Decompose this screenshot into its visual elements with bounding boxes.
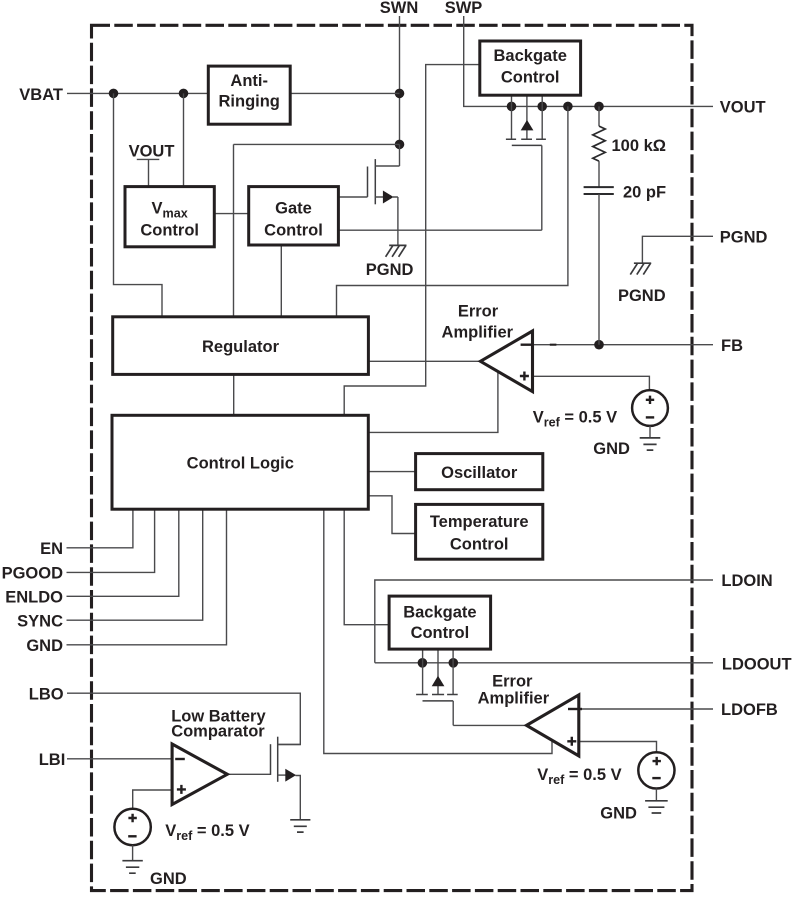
wire VBAT input rail <box>67 92 208 94</box>
U1 minus tick on FB wire <box>550 344 557 346</box>
svg-text:Ringing: Ringing <box>218 93 279 111</box>
wire LBO output <box>67 693 300 744</box>
wire Gate Control to NMOS gate <box>338 196 367 198</box>
svg-text:GND: GND <box>150 870 187 888</box>
svg-text:SWN: SWN <box>380 0 419 17</box>
wire SYNC <box>67 509 203 620</box>
svg-text:LBI: LBI <box>39 751 66 769</box>
wire Control Logic to Temperature Control <box>368 496 415 534</box>
svg-text:Amplifier: Amplifier <box>442 324 514 342</box>
ground GND under V2 <box>645 789 668 814</box>
U3 plus sign <box>177 785 186 794</box>
svg-text:Control: Control <box>450 535 509 553</box>
svg-text:VOUT: VOUT <box>720 99 766 117</box>
node rail dot 2 <box>537 102 547 112</box>
svg-text:LDOFB: LDOFB <box>721 701 778 719</box>
svg-text:SWP: SWP <box>445 0 483 17</box>
op-amp U3 low battery comparator <box>172 744 227 805</box>
ground GND under Q4 <box>290 820 310 832</box>
wire Q4 source to ground <box>296 776 301 820</box>
wire comparator plus to Vref <box>133 790 172 809</box>
wire Anti-Ringing output to SWN <box>290 92 399 94</box>
ground GND under V3 <box>122 845 142 873</box>
wire Vmax to Gate Control <box>214 213 248 215</box>
svg-text:VBAT: VBAT <box>19 86 63 104</box>
transistor Q1 NMOS switch <box>368 144 400 245</box>
U2 plus sign <box>567 737 576 746</box>
block Backgate Control (LDO) <box>389 596 491 649</box>
wire Control Logic to error amp U1 <box>368 371 498 432</box>
node rail dot 4 (divider tap) <box>594 102 604 112</box>
op-amp U2 LDO error amplifier <box>527 695 579 756</box>
wire FB input to error amp minus <box>509 344 713 346</box>
transistor Q3 LDO pass PMOS pins <box>416 649 458 725</box>
svg-text:Gate: Gate <box>275 200 312 218</box>
node FB junction <box>594 340 604 350</box>
svg-text:Control: Control <box>140 222 199 240</box>
IC boundary dashed border <box>92 25 693 890</box>
svg-text:PGND: PGND <box>720 228 768 246</box>
node rail dot 3 <box>563 102 573 112</box>
wire Regulator bottom to Control Logic top <box>233 374 235 415</box>
wire ENLDO <box>67 509 179 596</box>
U1 plus sign <box>520 372 529 381</box>
wire VBAT to Regulator top <box>114 93 163 316</box>
ground PGND (chassis) right side <box>630 263 651 274</box>
svg-text:LBO: LBO <box>29 685 64 703</box>
svg-text:EN: EN <box>40 540 63 558</box>
svg-text:Anti-: Anti- <box>230 72 268 90</box>
body diode of Q2 <box>521 120 534 130</box>
svg-text:Error: Error <box>492 673 533 691</box>
node LDO rail dot 2 <box>449 658 459 668</box>
svg-text:Control Logic: Control Logic <box>187 454 294 472</box>
svg-text:LDOIN: LDOIN <box>721 572 772 590</box>
svg-text:Error: Error <box>458 303 499 321</box>
wire vertical between Vmax and Gate Control down to Regulator <box>233 144 235 316</box>
wire LDOFB to error amp minus <box>554 708 713 710</box>
wire LDOOUT rail <box>375 662 713 664</box>
node VBAT junction 2 <box>179 89 189 99</box>
voltage source V1 Vref 0.5V <box>632 390 668 426</box>
transistor Q4 LBO NMOS <box>271 737 301 782</box>
block Temperature Control <box>416 504 543 559</box>
wire Backgate Control left to Control Logic <box>344 65 480 416</box>
wire SWP vertical into VOUT rail <box>464 16 512 106</box>
wire LDOIN input <box>375 580 713 663</box>
svg-text:GND: GND <box>26 637 63 655</box>
block Regulator <box>113 317 369 375</box>
block Gate Control <box>249 187 339 245</box>
svg-text:Backgate: Backgate <box>403 604 476 622</box>
wire Gate Control to rectifier PMOS gate <box>338 229 541 231</box>
node SWN junction on VBAT line <box>395 89 405 99</box>
svg-text:Control: Control <box>411 624 470 642</box>
wire error amp plus to Vref <box>533 376 649 390</box>
svg-text:Regulator: Regulator <box>202 338 280 356</box>
ground PGND (chassis) under Q1 <box>386 245 407 256</box>
U2 minus sign <box>568 708 582 710</box>
svg-text:LDOOUT: LDOOUT <box>722 656 792 674</box>
voltage source V3 Vref 0.5V <box>114 809 150 845</box>
wire Control Logic to Oscillator <box>368 471 415 473</box>
wire Gate Control bottom to Regulator top <box>280 245 282 317</box>
svg-text:100 kΩ: 100 kΩ <box>612 137 667 155</box>
wire GND <box>67 509 227 645</box>
svg-text:GND: GND <box>600 805 637 823</box>
wire PGND pin stub <box>642 236 713 262</box>
svg-text:PGND: PGND <box>366 261 414 279</box>
capacitor C1 20pF <box>584 187 614 345</box>
body diode of Q3 <box>432 676 445 687</box>
wire VBAT to Vmax Control top <box>183 93 185 186</box>
U3 minus sign <box>175 758 185 760</box>
svg-text:20 pF: 20 pF <box>623 184 666 202</box>
svg-text:GND: GND <box>593 440 630 458</box>
node VBAT junction 1 <box>109 89 119 99</box>
svg-text:VOUT: VOUT <box>129 143 175 161</box>
node SWN junction lower <box>395 140 405 150</box>
block Control Logic <box>112 415 368 509</box>
svg-text:PGOOD: PGOOD <box>2 565 64 583</box>
block Oscillator <box>416 454 543 490</box>
wire VOUT rail <box>512 105 714 107</box>
wire Control Logic to LDO Backgate Control <box>344 509 389 625</box>
voltage source V2 Vref 0.5V <box>638 752 674 788</box>
wire VOUT sense to Regulator top <box>337 106 568 316</box>
wire VOUT stub above Vmax Control <box>137 159 160 186</box>
wire EN <box>67 509 133 548</box>
svg-text:PGND: PGND <box>618 287 666 305</box>
U1 minus sign <box>521 344 533 346</box>
svg-text:FB: FB <box>721 337 743 355</box>
wire Control Logic to LDO error amp <box>324 509 552 753</box>
wire LDO pass gate to error amp output <box>453 724 526 726</box>
node rail dot 1 <box>507 102 517 112</box>
wire comparator output to Q4 gate <box>227 773 270 775</box>
svg-text:Oscillator: Oscillator <box>441 464 518 482</box>
wire horizontal to NMOS drain branch <box>234 143 400 145</box>
wire LBI input <box>67 758 172 760</box>
svg-text:Control: Control <box>501 68 560 86</box>
svg-text:Temperature: Temperature <box>430 513 529 531</box>
block Backgate Control (top) <box>480 41 581 95</box>
op-amp U1 error amplifier <box>480 331 532 392</box>
transistor Q2 rectifier PMOS pins <box>506 95 546 230</box>
node LDO rail dot 1 <box>418 658 428 668</box>
wire PGOOD <box>67 509 155 572</box>
wire LDO error amp plus to Vref <box>579 742 657 753</box>
svg-text:Comparator: Comparator <box>171 722 265 740</box>
svg-text:Control: Control <box>264 222 323 240</box>
resistor R1 100k <box>593 106 605 187</box>
svg-text:ENLDO: ENLDO <box>5 588 63 606</box>
wire error amp output to Regulator <box>368 360 480 362</box>
svg-text:SYNC: SYNC <box>17 612 63 630</box>
svg-text:Backgate: Backgate <box>494 47 567 65</box>
wire SWN vertical <box>399 16 401 144</box>
block Anti-Ringing <box>208 66 290 124</box>
svg-text:Amplifier: Amplifier <box>478 689 550 707</box>
block Vmax Control <box>125 187 214 247</box>
ground GND under V1 <box>640 426 661 450</box>
